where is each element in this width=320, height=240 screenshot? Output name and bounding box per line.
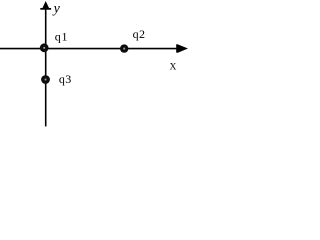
svg-text:y: y [52, 2, 61, 17]
y-axis wire [45, 6, 47, 126]
svg-text:q3: q3 [59, 72, 72, 86]
charge q1 marker [40, 43, 49, 52]
charge q3 marker [41, 75, 50, 84]
x-axis wire [0, 48, 178, 50]
y-axis arrowhead [40, 1, 51, 10]
svg-text:X: X [170, 63, 177, 73]
charge q2 marker [120, 44, 128, 52]
svg-text:q2: q2 [133, 27, 146, 41]
x-axis arrowhead [176, 44, 188, 52]
svg-text:q1: q1 [55, 30, 68, 44]
